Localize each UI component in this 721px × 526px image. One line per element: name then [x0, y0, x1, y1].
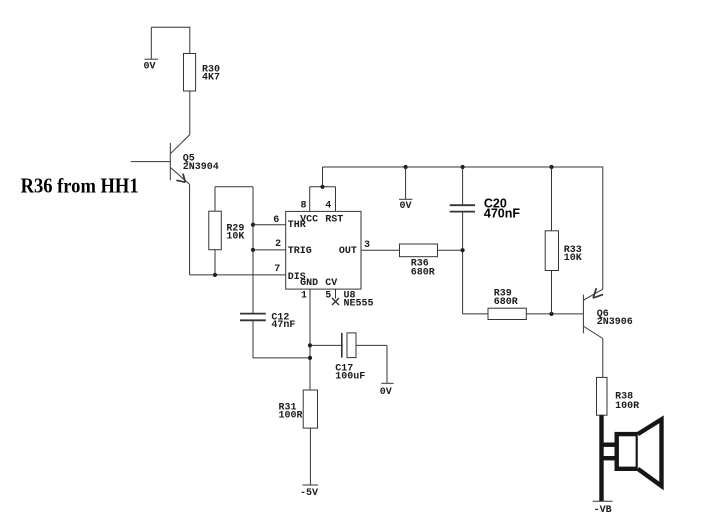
- wire (GND net to C17): [310, 344, 341, 346]
- label U8 NE555: [344, 290, 374, 309]
- label R31 100R: [279, 403, 303, 422]
- svg-text:0V: 0V: [380, 387, 392, 398]
- terminal -5V: [303, 484, 319, 486]
- label R30 4K7: [202, 65, 220, 84]
- svg-text:1: 1: [301, 291, 307, 302]
- svg-text:2: 2: [275, 239, 281, 250]
- node (R33 tap on rail): [549, 165, 553, 169]
- wire (VCC pin 8 stub): [309, 187, 311, 212]
- svg-text:0V: 0V: [144, 61, 156, 72]
- svg-text:-VB: -VB: [594, 505, 612, 516]
- wire (GND pin 1 down): [309, 289, 311, 390]
- node (0V tap on rail): [404, 165, 408, 169]
- svg-text:OUT: OUT: [339, 246, 357, 257]
- resistor R29: [209, 211, 222, 250]
- wire (rail to C20): [462, 167, 464, 205]
- wire (rail to R33): [551, 167, 553, 231]
- wire (Q6 collector to R38): [602, 339, 604, 378]
- svg-text:NE555: NE555: [344, 298, 374, 309]
- wire (Q5 base lead): [131, 161, 171, 163]
- resistor R36: [400, 244, 438, 257]
- svg-text:3: 3: [364, 240, 370, 251]
- node (bracket mid): [320, 185, 324, 189]
- wire (C12 to GND net): [253, 357, 310, 359]
- transistor Q5: [170, 135, 190, 185]
- wire (C20 down to OUT node): [462, 212, 464, 314]
- capacitor C12: [240, 314, 266, 321]
- resistor R31: [303, 390, 317, 428]
- svg-text:7: 7: [274, 264, 280, 275]
- svg-text:47nF: 47nF: [271, 320, 295, 331]
- wire (0V to R30 top): [151, 26, 190, 28]
- terminal -VB: [593, 500, 613, 502]
- wire (VCC-RST bracket): [310, 186, 336, 188]
- wire (CV pin 5 stub): [335, 289, 337, 298]
- svg-text:100R: 100R: [279, 411, 303, 422]
- svg-text:5: 5: [325, 291, 331, 302]
- node (THR tap): [251, 223, 255, 227]
- node (C12 tap): [308, 356, 312, 360]
- node (R33 bottom joins base wire): [549, 312, 553, 316]
- wire (top supply rail): [323, 166, 603, 168]
- svg-text:100R: 100R: [615, 401, 639, 412]
- wire (R29 top lead): [214, 187, 216, 211]
- wire DIS net (to chip pin 7): [190, 274, 286, 276]
- resistor R33: [545, 231, 558, 271]
- op-amp U8 NE555 body: [286, 211, 361, 289]
- wire (OUT pin 3 to R36): [361, 249, 400, 251]
- label C17 100uF: [335, 363, 365, 382]
- svg-text:0V: 0V: [400, 201, 412, 212]
- svg-text:6: 6: [273, 215, 279, 226]
- wire (Q5 emitter down to DIS): [189, 184, 191, 275]
- node (TRIG tap): [251, 248, 255, 252]
- wire (speaker stub 1, thick): [602, 443, 617, 447]
- wire (R29 bottom lead): [214, 250, 216, 275]
- label C12 47nF: [271, 313, 295, 331]
- wire (down to R30): [189, 27, 191, 54]
- svg-text:RST: RST: [325, 214, 343, 225]
- ground 0V (top left): [145, 27, 159, 59]
- wire (R36 to node): [438, 249, 463, 251]
- node (R29 bottom on DIS wire): [213, 273, 217, 277]
- wire (R30 to Q5 collector): [189, 91, 191, 135]
- wire (bracket up to rail): [322, 167, 324, 187]
- wire (speaker stub 2, thick): [602, 456, 617, 460]
- label R38 100R: [615, 392, 639, 413]
- svg-text:TRIG: TRIG: [288, 246, 312, 257]
- capacitor C20: [450, 205, 475, 211]
- speaker LS1: [617, 419, 662, 486]
- svg-text:-5V: -5V: [300, 488, 318, 499]
- wire (R39 to Q6 base): [526, 313, 583, 315]
- svg-text:680R: 680R: [494, 297, 518, 308]
- transistor Q6: [583, 288, 603, 338]
- wire (R33 to base node): [551, 271, 553, 314]
- ground 0V (mid): [399, 167, 412, 199]
- node (C20 tap on rail): [461, 165, 465, 169]
- label R33 10K: [564, 245, 582, 264]
- wire (R38 to speaker lead, thick): [599, 415, 603, 501]
- wire (RST pin 4 stub): [335, 187, 337, 212]
- wire (rail down to Q6 emitter): [602, 167, 604, 290]
- svg-text:CV: CV: [325, 278, 337, 289]
- svg-text:680R: 680R: [411, 267, 435, 278]
- label R39 680R: [494, 289, 518, 308]
- node (OUT/C20/R39 junction): [461, 248, 465, 252]
- wire (TRIG pin 2): [253, 249, 286, 251]
- resistor R39: [488, 308, 526, 319]
- svg-text:2N3906: 2N3906: [597, 317, 633, 328]
- wire (C17 to ground): [356, 345, 387, 383]
- svg-text:10K: 10K: [564, 253, 582, 264]
- svg-text:THR: THR: [288, 220, 306, 231]
- label R36 680R: [411, 258, 435, 278]
- node (C17 tap): [308, 343, 312, 347]
- svg-text:100uF: 100uF: [335, 371, 365, 382]
- svg-text:4: 4: [325, 201, 331, 212]
- wire (THR pin 6): [253, 224, 286, 226]
- ground 0V (C17): [381, 382, 393, 384]
- wire (THR/TRIG/C12 vertical net): [252, 187, 254, 314]
- svg-text:470nF: 470nF: [484, 206, 520, 220]
- wire (C12 bottom lead): [252, 320, 254, 358]
- svg-text:GND: GND: [300, 278, 318, 289]
- svg-text:8: 8: [301, 201, 307, 212]
- svg-text:4K7: 4K7: [202, 72, 220, 83]
- wire (down to R39 row): [463, 313, 488, 315]
- resistor R30: [184, 54, 196, 92]
- capacitor C17: [342, 333, 356, 358]
- label Q6 2N3906: [597, 309, 633, 328]
- resistor R38: [597, 377, 608, 415]
- wire (R31 to -5V): [309, 428, 311, 485]
- svg-text:10K: 10K: [226, 232, 244, 243]
- svg-text:2N3904: 2N3904: [183, 162, 219, 173]
- wire (top bar R29 to THR net): [215, 186, 253, 188]
- no-connect X (CV): [332, 298, 339, 305]
- label R29 10K: [226, 223, 244, 242]
- svg-text:R36 from HH1: R36 from HH1: [21, 173, 139, 197]
- label Q5 2N3904: [183, 154, 219, 173]
- label C20 470nF: [484, 196, 520, 220]
